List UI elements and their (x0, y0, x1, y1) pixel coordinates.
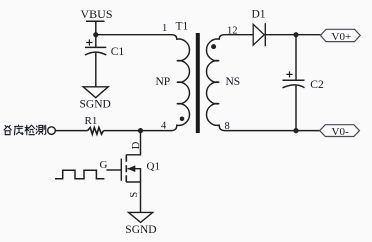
transistor Q1 body arrow head (127, 165, 135, 172)
power symbol VBUS bar (86, 21, 105, 35)
svg-text:SGND: SGND (80, 99, 111, 111)
svg-text:D: D (131, 141, 142, 149)
node junction C2/V0- (293, 128, 298, 133)
transformer T1 secondary winding NS (206, 35, 224, 131)
svg-text:NP: NP (156, 76, 171, 88)
wire D1 cathode to V0+ flag (top rail right) (265, 34, 320, 36)
diode D1 triangle (253, 24, 264, 45)
wire gate lead (106, 169, 121, 171)
capacitor C2 bottom lead (295, 85, 297, 130)
node junction R1/drain/pin4 (138, 128, 143, 133)
square wave gate drive symbol (55, 170, 104, 178)
node junction VBUS/C1 (93, 32, 98, 37)
svg-text:S: S (129, 192, 140, 198)
svg-text:T1: T1 (176, 21, 189, 33)
svg-text:4: 4 (161, 121, 167, 132)
svg-text:VBUS: VBUS (81, 7, 113, 21)
resistor R1 zigzag (88, 128, 104, 135)
ground SGND (bottom) triangle (129, 212, 153, 222)
capacitor C2 plus sign (286, 71, 292, 77)
transistor Q1 drain lead (126, 131, 140, 155)
capacitor C2 top lead (295, 35, 297, 81)
wire terminal to resistor R1 (55, 130, 87, 132)
svg-text:C1: C1 (111, 46, 125, 58)
wire R1 to drain junction to transformer pin 4 (bottom rail left) (104, 130, 172, 132)
terminal circle 谷底检测 input (48, 127, 56, 135)
svg-text:NS: NS (226, 76, 241, 88)
transformer T1 secondary phase dot (211, 44, 216, 49)
svg-text:V0+: V0+ (332, 31, 352, 43)
svg-text:Q1: Q1 (147, 161, 160, 173)
capacitor C2 plates (283, 80, 305, 88)
transistor Q1 channel segments (125, 155, 127, 182)
net flag V0- (320, 125, 360, 137)
svg-text:R1: R1 (85, 115, 98, 127)
ground SGND (left) triangle (83, 87, 108, 98)
capacitor C1 plates (85, 47, 106, 55)
svg-text:G: G (100, 159, 108, 171)
transformer T1 primary phase dot (180, 117, 185, 122)
svg-text:1: 1 (162, 23, 167, 34)
transistor Q1 body arrow line (128, 169, 141, 182)
transistor Q1 source lead (126, 182, 140, 212)
label 谷底检测 (valley detection) (4, 125, 46, 135)
net flag V0+ (320, 29, 360, 41)
diode D1 cathode bar (264, 23, 266, 46)
wire secondary pin 8 to V0- flag (bottom rail right) (225, 130, 320, 132)
node junction D1/C2/V0+ (293, 32, 298, 37)
transistor Q1 gate bar (120, 159, 122, 181)
capacitor C1 plus sign (86, 40, 92, 46)
capacitor C1 bottom lead (95, 53, 97, 87)
svg-text:V0-: V0- (332, 126, 349, 138)
svg-text:8: 8 (225, 121, 230, 132)
transformer T1 primary winding NP (172, 35, 190, 131)
svg-text:SGND: SGND (125, 224, 156, 236)
wire secondary pin 12 to diode D1 anode (225, 34, 254, 36)
svg-text:12: 12 (227, 26, 238, 37)
svg-text:C2: C2 (310, 79, 324, 91)
transformer T1 core bar (196, 33, 200, 133)
wire VBUS node to transformer pin 1 (top rail left) (96, 34, 172, 36)
capacitor C1 top lead (95, 35, 97, 48)
svg-text:D1: D1 (252, 9, 266, 21)
